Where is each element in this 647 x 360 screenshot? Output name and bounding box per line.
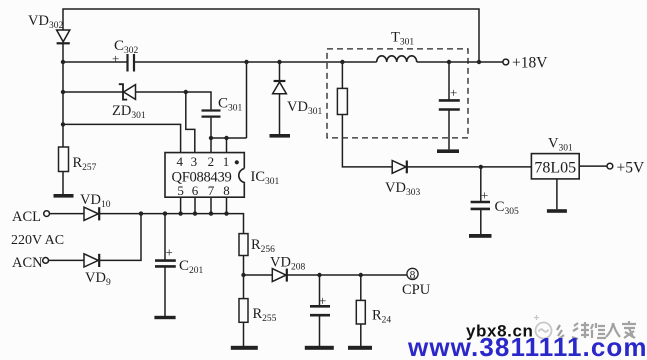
node: ACL line junctions [139, 211, 143, 215]
ground (R24) [348, 346, 372, 350]
svg-text:VD208: VD208 [270, 255, 305, 273]
svg-text:C305: C305 [495, 199, 520, 217]
svg-text:+: + [319, 293, 326, 308]
resistor R255 [239, 299, 248, 323]
svg-text:IC301: IC301 [251, 169, 280, 187]
ground (78L05) [547, 209, 567, 213]
transformer T301 dashed box [327, 49, 468, 138]
svg-text:C201: C201 [179, 258, 204, 276]
diode VD208 [272, 269, 287, 282]
svg-text:+: + [450, 85, 457, 100]
wire: CPU filter cap branch [319, 275, 321, 346]
ground (T301 secondary cap) [437, 149, 459, 153]
wire: ACN line y260.4 [49, 214, 142, 261]
svg-text:3: 3 [191, 154, 198, 169]
diode VD302 [57, 30, 70, 43]
svg-text:VD302: VD302 [28, 13, 63, 31]
wire: +18V rail y62 [63, 61, 503, 63]
node: ZD301 net junction [184, 90, 188, 94]
ground (VD301) [270, 134, 291, 138]
svg-text:1: 1 [223, 154, 230, 169]
svg-text:R256: R256 [251, 237, 275, 255]
svg-text:R24: R24 [372, 308, 391, 326]
svg-text:ACN: ACN [12, 255, 43, 271]
regulator V301 78L05 [531, 154, 579, 179]
diode VD9 [84, 254, 99, 267]
svg-text:C301: C301 [218, 96, 243, 114]
diode VD301 [273, 81, 287, 94]
node: C305 junction [479, 165, 483, 169]
ground (C201) [154, 316, 175, 319]
pin numbers 4 3 2 1 [177, 154, 230, 169]
terminal pin 8 to CPU [407, 268, 418, 279]
zener ZD301 [119, 84, 136, 99]
wire: ACL line y213.6 [50, 214, 244, 275]
svg-text:2: 2 [208, 154, 215, 169]
pin 1 marker dot of IC301 [235, 160, 239, 164]
wire: C305 branch [480, 167, 482, 234]
terminal +5V [607, 163, 613, 169]
svg-text:6: 6 [192, 183, 199, 198]
wire: IC bottom pins 5-8 [181, 197, 227, 213]
capacitor C302 [128, 54, 135, 72]
node: left rail junctions [61, 60, 65, 64]
svg-text:+5V: +5V [617, 160, 645, 177]
svg-text:+: + [166, 245, 173, 260]
svg-text:8: 8 [410, 269, 416, 281]
terminal +18V [503, 59, 509, 65]
wire: VD301 branch [279, 62, 281, 134]
svg-text:5: 5 [177, 183, 184, 198]
svg-text:+: + [481, 188, 488, 203]
svg-text:78L05: 78L05 [534, 159, 576, 176]
svg-text:220V AC: 220V AC [11, 233, 64, 248]
diode VD10 [84, 207, 99, 220]
svg-text:VD301: VD301 [287, 99, 322, 117]
ground (R255) [231, 346, 258, 350]
svg-text:7: 7 [208, 183, 215, 198]
terminal ACL [44, 211, 50, 217]
wire: pin4 line y124 [63, 124, 181, 152]
capacitor (CPU filter) [310, 306, 330, 315]
capacitor C301 [202, 111, 221, 117]
wire: R24 branch [360, 275, 362, 346]
node: VD208 line junctions [241, 273, 245, 277]
svg-text:R257: R257 [73, 155, 97, 173]
wire: left HV rail [62, 43, 64, 194]
svg-text:VD303: VD303 [385, 180, 420, 198]
svg-text:8: 8 [223, 183, 230, 198]
wire: top feedback rail [63, 9, 479, 62]
wire: C201 branch [164, 214, 166, 316]
wire: T301 primary branch [342, 62, 531, 167]
resistor R24 [356, 300, 365, 324]
terminal ACN [43, 258, 49, 264]
watermark chinese characters [557, 321, 636, 339]
svg-text:+: + [112, 51, 119, 66]
wire: C302 right to IC pins 1,2 [211, 62, 247, 153]
T301 primary winding (resistor body) [337, 88, 347, 114]
T301 secondary capacitor [439, 100, 460, 109]
resistor R257 [59, 147, 69, 172]
svg-text:ACL: ACL [12, 209, 41, 225]
ground (CPU filter cap) [305, 346, 334, 350]
svg-text:ZD301: ZD301 [112, 103, 146, 121]
wire: T301 secondary cap branch [448, 62, 450, 149]
diode VD303 [392, 161, 407, 174]
pin numbers 5 6 7 8 [177, 183, 229, 198]
watermark logo circle [534, 315, 552, 339]
svg-text:CPU: CPU [402, 282, 431, 298]
svg-text:VD9: VD9 [85, 270, 111, 288]
wire: 78L05 output and ground [557, 166, 607, 209]
svg-text:V301: V301 [548, 136, 573, 154]
wire: ZD301 net y92 [63, 92, 211, 138]
node: +18V rail junctions [244, 60, 248, 64]
ground (R257) [54, 194, 74, 198]
wire: VD208 line y275 [244, 274, 407, 276]
ground (C305) [469, 234, 492, 238]
wire: R255 to ground [243, 275, 245, 346]
svg-text:T301: T301 [391, 30, 414, 48]
resistor R256 [239, 234, 248, 256]
capacitor C201 [155, 261, 176, 267]
T301 secondary inductor [377, 56, 417, 62]
wire: pin3 jog from ZD301 net [186, 92, 195, 153]
node: pins 1-2 net junctions [209, 136, 213, 140]
capacitor C305 [471, 202, 490, 209]
svg-text:www.3811111.com: www.3811111.com [407, 332, 647, 360]
svg-text:+18V: +18V [512, 55, 548, 72]
svg-text:VD10: VD10 [80, 192, 111, 210]
IC U301 QF088439 [165, 153, 244, 198]
svg-text:4: 4 [177, 154, 184, 169]
svg-text:R255: R255 [253, 306, 277, 324]
